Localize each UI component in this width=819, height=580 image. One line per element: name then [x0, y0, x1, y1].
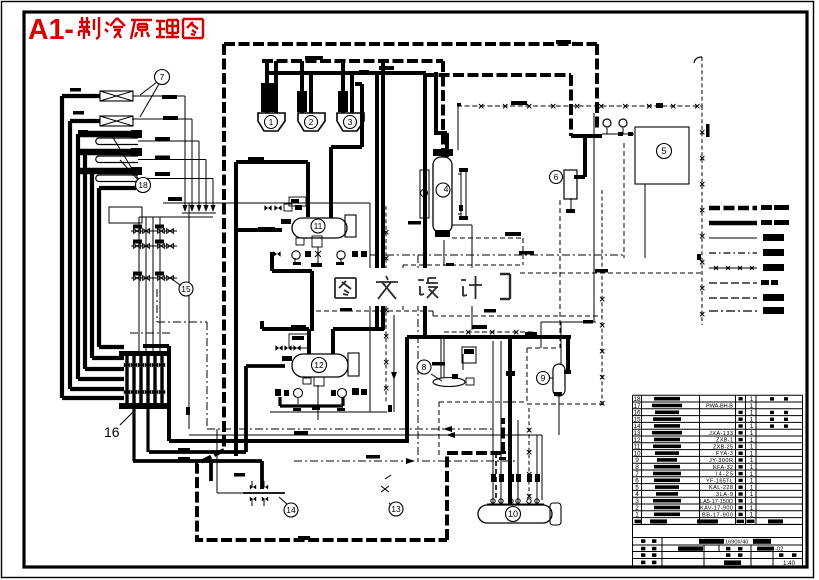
- wire unit12 top-right feed: [333, 329, 384, 355]
- parts list table grid: [633, 395, 803, 524]
- legend liquid line: [709, 237, 757, 239]
- wire evaporator line 6: [99, 188, 136, 347]
- unit12 aux box: [289, 334, 308, 348]
- compressor C3: [337, 113, 364, 131]
- parts row 9: [635, 457, 754, 464]
- wire unit11 oil drain: [272, 252, 312, 331]
- wire dashdot lower main: [294, 460, 517, 462]
- coil heat-exchanger E5: [80, 168, 139, 175]
- wire unit11 left U-feed: [236, 162, 308, 456]
- wire hot-gas defrost marked line top: [457, 105, 702, 107]
- parts row 6: [635, 478, 754, 485]
- valve station rows: [134, 229, 141, 234]
- parts row 15: [633, 416, 788, 423]
- svg-text:18: 18: [138, 180, 148, 190]
- wire manifold out lower to pump14: [133, 461, 262, 489]
- wire vessel4 gauge line: [457, 106, 459, 150]
- wire top-right hook: [694, 57, 702, 63]
- svg-text:ZXB-1: ZXB-1: [716, 438, 733, 444]
- wire marked line mid x444: [444, 331, 533, 333]
- svg-text:KFA-32: KFA-32: [713, 465, 733, 471]
- legend dashed2 label block: [763, 294, 784, 301]
- unit11 top valve train: [264, 205, 271, 210]
- wire drop to vessel10: [508, 337, 512, 506]
- manifold16 flanges: [119, 351, 169, 356]
- title block grid: [633, 525, 803, 568]
- wire vessel4 outlet line: [452, 225, 472, 330]
- equipment box left: [109, 207, 142, 223]
- unit12 left fitting: [282, 356, 292, 361]
- wire compressor2 suction drop: [309, 72, 313, 113]
- svg-text:PWA-BH-B: PWA-BH-B: [706, 404, 733, 410]
- wire dashed mid band: [316, 311, 602, 316]
- wire compressor2 discharge drop: [300, 61, 304, 113]
- wire dashed line y273: [504, 200, 702, 348]
- wire marked drop to vessel10: [528, 408, 530, 500]
- compressor C1 valve blob: [261, 83, 274, 112]
- char tu: [183, 19, 203, 38]
- wire dashdot stub left: [130, 332, 170, 334]
- svg-text:-02: -02: [775, 547, 783, 553]
- wm ji: [461, 276, 482, 299]
- svg-text:1690#/40: 1690#/40: [725, 539, 748, 545]
- wire cascade line4: [138, 160, 206, 209]
- svg-text:1:40: 1:40: [783, 560, 796, 567]
- heat-exchanger HX2: [100, 116, 133, 126]
- unit11 pump left: [292, 251, 300, 259]
- legend hp gas label: [761, 205, 789, 210]
- vessel V4 bottom fitting: [435, 230, 450, 237]
- vessel V9: [553, 364, 565, 396]
- wire vessel6 drain: [570, 198, 572, 212]
- wire manifold risers to headers: [134, 409, 148, 461]
- svg-text:LA5-17-150D: LA5-17-150D: [700, 499, 733, 505]
- wire unit8 feeders: [441, 339, 463, 378]
- svg-text:12: 12: [314, 360, 324, 370]
- svg-text:ZXB-25: ZXB-25: [713, 444, 733, 450]
- wire unit11 suction stub: [236, 228, 282, 232]
- svg-text:JY-300R: JY-300R: [709, 458, 733, 464]
- svg-text:1: 1: [269, 117, 274, 127]
- wire unit centre drop: [295, 247, 341, 266]
- svg-text:14: 14: [286, 505, 296, 515]
- wire dashdot y258: [370, 254, 624, 256]
- arrow left y435: [446, 432, 455, 438]
- heat-exchanger HX1: [100, 91, 133, 101]
- char yuan: [131, 20, 152, 39]
- svg-text:9: 9: [541, 373, 546, 383]
- instrument circle 18: [112, 136, 139, 180]
- wire condenser inlet drop: [434, 72, 447, 157]
- svg-text:4: 4: [443, 184, 448, 194]
- legend air label: [761, 280, 778, 285]
- wire compressor1 discharge drop: [274, 61, 278, 113]
- wire marked riser x602: [601, 190, 603, 406]
- legend lp gas line: [709, 221, 757, 226]
- legend dashed2 line: [709, 297, 757, 299]
- wire LP riser x377: [340, 72, 377, 329]
- wire liquid feed riser x425: [423, 75, 427, 337]
- wire transfer line y435: [189, 429, 542, 500]
- wire cascade line2: [132, 119, 192, 208]
- compressor C3 valve blob: [338, 91, 348, 112]
- svg-text:KAL-228: KAL-228: [709, 485, 733, 491]
- wire vessel10 feeders: [493, 341, 537, 505]
- vessel V10 top fittings: [491, 499, 539, 503]
- wire hot gas to vessel6: [574, 136, 585, 177]
- title block content: [641, 539, 796, 567]
- unit12 drain blobs: [312, 406, 320, 410]
- unit12 pump left: [294, 389, 303, 398]
- svg-text:15: 15: [181, 284, 191, 294]
- vessel V6 fitting: [566, 209, 575, 213]
- legend diamond line: [709, 266, 757, 270]
- wire vertical x394: [393, 315, 395, 412]
- instrument circle 7: [140, 82, 157, 95]
- wire cascade line5: [138, 179, 213, 209]
- wire HP gas dashed main loop: [197, 44, 503, 540]
- unit12 box valves: [275, 345, 282, 350]
- arrow down cascade: [182, 205, 187, 212]
- wire condenser inlet thin: [602, 128, 645, 258]
- svg-text:8: 8: [422, 362, 427, 372]
- wire dashdot drop x418: [417, 255, 419, 461]
- legend dashdot line: [709, 252, 757, 254]
- arrow down x394: [391, 372, 397, 380]
- unit11 drain blobs: [311, 263, 322, 267]
- wire unit12 centre drop: [298, 385, 342, 420]
- svg-text:KAV-17-900: KAV-17-900: [700, 506, 733, 512]
- parts table: [633, 395, 803, 567]
- legend dashdot2 line: [709, 310, 757, 312]
- wm wen: [376, 276, 398, 299]
- wire dashed drop x624: [623, 143, 625, 258]
- svg-text:7: 7: [160, 72, 165, 82]
- unit 12 compressor package: [292, 354, 348, 377]
- compressor C2: [298, 113, 325, 131]
- char li: [156, 20, 179, 37]
- legend lp gas label: [761, 220, 789, 225]
- wire cascade header: [139, 213, 216, 217]
- wire manifold out upper: [149, 450, 246, 454]
- pump14 assembly: [243, 492, 285, 494]
- condenser box 5: [635, 127, 689, 184]
- wire dashdot left net: [157, 289, 494, 429]
- legend liquid label block: [763, 234, 784, 241]
- instrument circle 15: [172, 279, 180, 285]
- arrow right y461: [406, 458, 415, 464]
- svg-text:A1-: A1-: [28, 14, 74, 46]
- wm she: [418, 278, 438, 298]
- wire riser x407 to manifold header: [405, 337, 409, 443]
- wire cascade line1: [132, 96, 185, 208]
- legend hp gas line: [709, 206, 757, 211]
- wire unit12 left suction riser: [246, 366, 285, 452]
- instrument circle 13: [385, 475, 391, 479]
- legend diamond label block: [763, 264, 784, 271]
- wire evaporator line 5: [92, 171, 124, 358]
- svg-text:YF-165TL: YF-165TL: [706, 478, 733, 484]
- svg-text:I4-25: I4-25: [716, 472, 733, 478]
- char leng: [105, 18, 125, 38]
- svg-text:BB-17-900: BB-17-900: [702, 512, 733, 518]
- condenser box ticks: [618, 132, 623, 136]
- svg-text:13: 13: [391, 504, 401, 514]
- vessel V4 top fittings: [433, 149, 442, 156]
- wire bypass to unit11 right: [331, 84, 362, 218]
- coil heat-exchanger E4: [80, 149, 139, 156]
- vessel V4 intercooler: [433, 157, 452, 233]
- wire HP gas dashed top header: [224, 44, 597, 130]
- wire valve-station rows: [131, 231, 177, 278]
- svg-text:5: 5: [661, 146, 666, 156]
- watermark: [326, 268, 518, 306]
- parts row 14: [633, 423, 788, 430]
- wire compressor1 suction drop: [265, 62, 269, 113]
- svg-text:16: 16: [104, 424, 120, 440]
- wire vessel4 aux top: [458, 171, 466, 217]
- parts row 18: [633, 396, 788, 403]
- wire dashed drop to vessel10: [495, 453, 497, 501]
- wire manifold out mid to riser x407: [143, 346, 407, 441]
- wire hot-gas header to condenser: [571, 134, 602, 138]
- wire drop to vessel9: [566, 337, 570, 371]
- wire aux line x594: [541, 113, 596, 364]
- wire vessel6 feed drop: [424, 75, 571, 136]
- wire evaporator line 1: [62, 96, 124, 398]
- parts row 13: [633, 430, 753, 437]
- vessel V9 tick: [564, 370, 571, 374]
- wire dashed label line y238: [452, 238, 523, 265]
- svg-text:6: 6: [554, 172, 559, 182]
- unit11 pump right: [337, 251, 345, 259]
- wire evaporator line 4: [85, 152, 124, 369]
- legend dashdot2 label block: [763, 307, 784, 314]
- unit 11 compressor package: [292, 218, 347, 238]
- legend: [709, 205, 789, 314]
- parts header row: [635, 519, 784, 523]
- piping: [62, 44, 704, 540]
- svg-text:11: 11: [314, 221, 323, 231]
- parts row 7: [635, 471, 754, 478]
- svg-text:2: 2: [309, 117, 314, 127]
- manifold16 valves: [127, 356, 162, 403]
- parts row 12: [633, 437, 753, 444]
- parts row 16: [633, 410, 788, 417]
- condenser pumps: [603, 119, 611, 127]
- wire HP riser x383: [381, 61, 385, 330]
- svg-text:JXA-133: JXA-133: [709, 431, 733, 437]
- wire marked line right of unit11: [385, 206, 387, 402]
- parts row 10: [633, 450, 753, 457]
- legend dashdot label block: [763, 249, 784, 256]
- legend air line: [709, 282, 757, 284]
- wire liquid main horizontal: [407, 335, 571, 339]
- char zhi: [79, 17, 99, 39]
- vessel V4 sight glass caps: [459, 168, 468, 172]
- wire suction header LP: [267, 71, 426, 75]
- wire evaporator line 2: [70, 121, 124, 389]
- unit11 left fitting: [281, 219, 291, 224]
- wire unit12 top-left feed: [262, 321, 309, 355]
- wire unit8 dashed enclosure: [439, 402, 527, 458]
- parts row 11: [634, 444, 754, 451]
- wire unit enclosure: [163, 203, 387, 429]
- wm tu: [335, 278, 356, 298]
- parts row 1: [635, 512, 754, 519]
- svg-text:FYA-3: FYA-3: [716, 451, 733, 457]
- wm bracket: [500, 274, 510, 299]
- svg-text:3LA-9: 3LA-9: [716, 492, 733, 498]
- svg-text:1: 1: [635, 512, 639, 519]
- wire compressor3 suction drop: [350, 72, 354, 113]
- wire valve-station risers: [139, 217, 160, 352]
- unit12 pump right: [338, 389, 347, 398]
- wire dashed enclosure unit11: [403, 265, 523, 311]
- wire compressor3 discharge drop: [341, 61, 345, 113]
- title A1 red text: [28, 14, 203, 46]
- compressor C1: [258, 113, 285, 131]
- vessel V10 receiver: [478, 505, 552, 523]
- wire evaporator line 3: [78, 134, 124, 379]
- wire marked riser x702: [701, 106, 703, 325]
- unit8 assembly: [431, 374, 442, 381]
- vessel V9 gauge: [536, 377, 553, 379]
- parts row 8: [635, 464, 754, 471]
- svg-text:10: 10: [508, 509, 518, 519]
- vessel V6: [564, 170, 577, 199]
- wire cascade line3: [138, 141, 199, 208]
- wire vessel9 dashed enclosure: [527, 348, 605, 404]
- vessel V10 top valves: [491, 474, 496, 482]
- parts row 2: [635, 505, 754, 512]
- svg-text:3: 3: [348, 117, 353, 127]
- wire vessel9 drain: [558, 396, 560, 435]
- wire HP gas dashed header2: [262, 61, 443, 157]
- parts row 4: [635, 491, 754, 498]
- unit11 under blocks: [296, 238, 304, 245]
- parts row 17: [633, 403, 753, 410]
- wire unit12 bottom U: [280, 397, 343, 406]
- svg-text:1: 1: [750, 512, 754, 519]
- unit12 under blocks: [303, 378, 311, 384]
- coil heat-exchanger E3: [80, 131, 139, 138]
- wire vessel4 bottom drain: [443, 240, 445, 266]
- parts row 5: [635, 484, 754, 491]
- compressor C2 valve blob: [297, 91, 307, 112]
- misc pipe labels: [70, 40, 710, 540]
- parts row 3: [635, 498, 754, 505]
- instrument circle 8: [417, 360, 431, 374]
